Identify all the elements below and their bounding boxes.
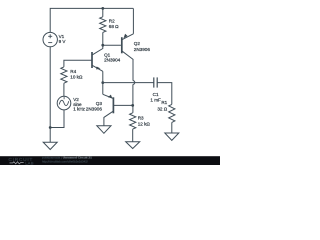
wire rail to R2 <box>102 8 104 16</box>
ground under R3 <box>126 142 140 149</box>
label Q1 2N3904 <box>104 52 121 62</box>
wire node to ground <box>49 128 51 143</box>
label V1 9 V <box>59 34 67 44</box>
svg-text:68 Ω: 68 Ω <box>109 24 119 29</box>
wire Q3 base <box>113 104 133 106</box>
wire R3 bottom <box>132 129 134 142</box>
svg-text:2N3904: 2N3904 <box>104 58 121 63</box>
node emitter / C1 tap <box>101 81 104 84</box>
node Q3 base / R3 <box>131 104 134 107</box>
svg-text:9 V: 9 V <box>59 39 67 44</box>
wire R4 top / Q1 base <box>64 60 92 67</box>
CircuitLab logo <box>8 157 34 165</box>
label Q2 2N3906 <box>134 41 151 52</box>
resistor R3 <box>130 113 136 129</box>
watermark caption <box>42 156 92 164</box>
resistor R2 <box>100 17 106 33</box>
svg-text:10 kΩ: 10 kΩ <box>70 74 83 79</box>
transistor Q1 2N3904 <box>92 45 103 71</box>
svg-text:12 kΩ: 12 kΩ <box>138 121 151 126</box>
label R3 12 kΩ <box>138 116 151 127</box>
svg-text:Q2: Q2 <box>134 41 141 46</box>
node R2 / Q1 collector / Q2 base <box>101 44 104 47</box>
wire Q2 emitter to rail <box>132 8 134 33</box>
label V2 sine 1 kHz <box>73 97 85 111</box>
svg-text:1 kHz: 1 kHz <box>73 107 85 112</box>
svg-text:LAB: LAB <box>25 160 34 165</box>
wire R2 bottom to node <box>102 32 104 45</box>
wire Q2 collector down with hop over C1 wire <box>132 59 134 80</box>
resistor R1 <box>169 104 175 122</box>
capacitor C1 <box>154 77 157 87</box>
svg-text:R4: R4 <box>70 69 76 74</box>
svg-text:32 Ω: 32 Ω <box>157 106 167 111</box>
svg-text:R2: R2 <box>109 18 115 23</box>
wire R1 bottom <box>171 122 173 133</box>
wire C1 left <box>103 82 154 84</box>
wire V1 bottom <box>49 47 51 128</box>
voltage source V1 <box>43 32 57 46</box>
svg-text:1 mF: 1 mF <box>150 97 161 102</box>
ground under V1 <box>43 142 57 149</box>
voltage source V2 sine <box>57 96 71 110</box>
svg-text:R3: R3 <box>138 116 144 121</box>
svg-text:R1: R1 <box>161 100 167 105</box>
wire R4 bottom to V2 <box>63 83 65 96</box>
wire Q2 base <box>103 44 121 46</box>
svg-text:2N3906: 2N3906 <box>134 47 151 52</box>
ground under R1 <box>165 133 179 140</box>
label C1 1 mF <box>150 92 161 102</box>
transistor Q2 2N3906 <box>122 34 134 60</box>
label R1 32 Ω <box>157 100 167 111</box>
label R4 10 kΩ <box>70 69 83 79</box>
resistor R4 <box>61 67 67 83</box>
transistor Q3 2N3906 <box>103 94 114 125</box>
wire Q1 emitter down <box>102 71 104 82</box>
watermark footer bar <box>0 156 220 165</box>
svg-text:2N3906: 2N3906 <box>86 106 103 111</box>
wire C1 right to R1 <box>157 83 172 105</box>
node V1 / V2 / ground <box>49 126 52 129</box>
svg-text:http:​//circuitlab.com/c8e6b2e: http:​//circuitlab.com/c8e6b2e2d342/ <box>42 160 88 164</box>
node supply tap <box>101 7 104 10</box>
wire V2 bottom to ground node <box>50 110 64 128</box>
label Q3 2N3906 <box>86 101 103 111</box>
label R2 68 Ω <box>109 18 119 29</box>
svg-text:Q3: Q3 <box>96 101 103 106</box>
wire V1 top to supply rail <box>50 8 133 32</box>
ground under Q3 collector <box>97 126 111 134</box>
